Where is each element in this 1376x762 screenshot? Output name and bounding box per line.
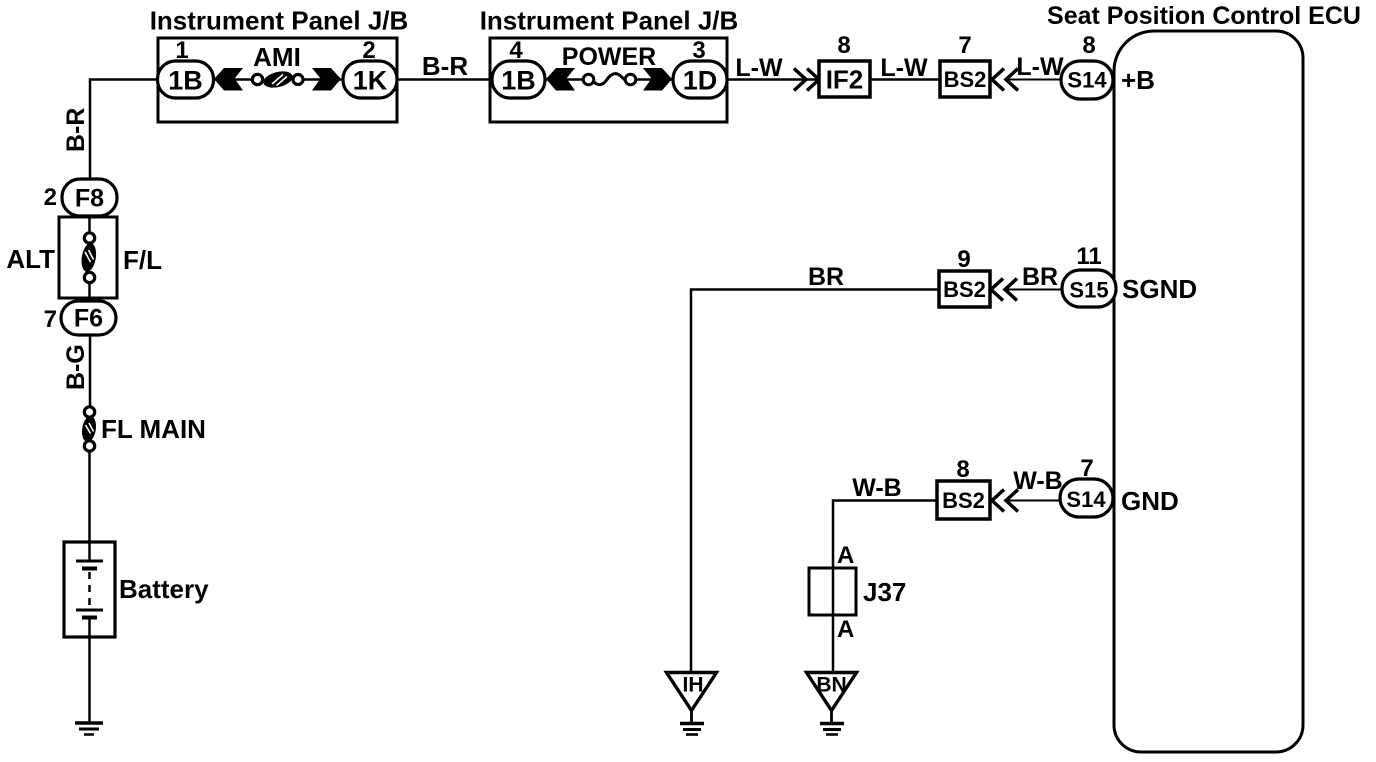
fusible link ALT element <box>80 216 98 301</box>
svg-text:F8: F8 <box>75 185 104 213</box>
junction J37 <box>809 568 856 615</box>
wire BR from IH to BS2 (SGND row) <box>691 290 939 672</box>
svg-text:A: A <box>837 616 854 643</box>
wire B-G from F6 to FL MAIN <box>89 335 92 407</box>
svg-text:2: 2 <box>362 37 375 64</box>
arrow left (J/B2) <box>546 68 575 91</box>
chevrons left out of BS2 top <box>992 69 1018 91</box>
svg-text:1K: 1K <box>353 66 388 96</box>
wire B-R between J/Bs <box>397 78 490 81</box>
svg-text:FL MAIN: FL MAIN <box>101 414 206 444</box>
wire: main feed through J/B 1 <box>213 78 253 81</box>
arrow right (J/B1) <box>312 68 341 91</box>
svg-text:8: 8 <box>837 32 850 59</box>
svg-text:BS2: BS2 <box>944 67 987 92</box>
svg-text:7: 7 <box>958 32 971 59</box>
svg-text:Instrument Panel J/B: Instrument Panel J/B <box>480 6 739 36</box>
fuse POWER element <box>583 74 636 85</box>
wire L-W S14 to BS2 <box>1006 79 1062 81</box>
svg-text:3: 3 <box>692 37 705 64</box>
ground triangle BN <box>807 673 857 735</box>
svg-text:A: A <box>837 542 854 569</box>
svg-text:+B: +B <box>1121 65 1155 95</box>
wire: left drop from 1B to F8 <box>90 80 158 180</box>
svg-text:ALT: ALT <box>6 244 55 274</box>
wire W-B S14 to BS2 <box>1006 500 1060 502</box>
svg-text:Seat Position Control ECU: Seat Position Control ECU <box>1047 2 1361 30</box>
svg-text:W-B: W-B <box>1013 467 1062 495</box>
svg-text:L-W: L-W <box>735 54 783 82</box>
Instrument Panel J/B box 1 <box>158 38 397 122</box>
connector 1B (J/B2) pin 4 <box>492 61 545 98</box>
connector S15 pin 11 <box>1062 270 1116 307</box>
svg-text:BR: BR <box>1022 263 1058 291</box>
connector 1K (J/B1) pin 2 <box>343 61 397 98</box>
junction connector BS2 pin 9 <box>939 271 990 307</box>
wire FL MAIN to battery <box>88 451 91 561</box>
connector 1B (J/B1) pin 1 <box>158 61 214 98</box>
chevrons right into IF2 <box>794 69 819 91</box>
fusible link FL MAIN element <box>80 407 97 451</box>
svg-text:7: 7 <box>44 306 57 333</box>
svg-text:S14: S14 <box>1067 68 1107 93</box>
svg-text:1: 1 <box>175 37 188 64</box>
wire L-W IF2 to BS2 <box>870 78 940 81</box>
connector 1D (J/B2) pin 3 <box>673 61 727 98</box>
svg-text:7: 7 <box>1080 455 1093 482</box>
wire battery to ground <box>88 617 91 723</box>
svg-text:S15: S15 <box>1069 278 1108 303</box>
battery B1 box <box>64 542 115 637</box>
svg-text:POWER: POWER <box>562 43 656 71</box>
Instrument Panel J/B box 2 <box>490 38 727 122</box>
svg-text:BR: BR <box>808 263 844 291</box>
svg-text:BS2: BS2 <box>943 277 986 302</box>
svg-text:IH: IH <box>683 674 704 697</box>
svg-text:B-G: B-G <box>62 344 90 390</box>
svg-text:8: 8 <box>1082 32 1095 59</box>
svg-text:B-R: B-R <box>422 51 468 81</box>
connector F6 <box>61 301 116 335</box>
ground (battery) <box>75 723 103 735</box>
svg-text:1B: 1B <box>168 66 203 96</box>
connector S14 pin 7 <box>1060 479 1113 517</box>
svg-text:S14: S14 <box>1066 487 1106 512</box>
svg-text:BN: BN <box>816 674 846 697</box>
svg-text:F6: F6 <box>74 305 103 333</box>
svg-text:GND: GND <box>1121 486 1179 516</box>
svg-text:B-R: B-R <box>62 108 90 152</box>
junction connector IF2 pin 8 <box>819 61 870 97</box>
svg-text:J37: J37 <box>863 577 906 607</box>
svg-text:2: 2 <box>44 184 57 211</box>
svg-text:8: 8 <box>956 456 969 483</box>
chevrons left out of BS2 bottom <box>992 490 1018 512</box>
svg-text:Instrument Panel J/B: Instrument Panel J/B <box>150 6 409 36</box>
wire BR S15 to BS2 <box>1005 289 1062 291</box>
ground triangle IH <box>667 673 717 735</box>
svg-text:SGND: SGND <box>1122 274 1197 304</box>
arrow right (J/B2) <box>643 68 672 91</box>
svg-text:W-B: W-B <box>852 474 901 502</box>
svg-text:9: 9 <box>957 246 970 273</box>
svg-text:AMI: AMI <box>253 42 301 72</box>
arrow left (J/B1) <box>214 68 243 91</box>
fuse AMI element <box>252 69 303 91</box>
wire W-B from J37 to BS2 (GND row) <box>833 501 937 672</box>
svg-text:IF2: IF2 <box>826 65 864 95</box>
connector F8 <box>62 179 117 216</box>
chevrons left out of BS2 mid <box>991 279 1017 301</box>
fusible link ALT F/L box <box>59 217 117 298</box>
svg-text:F/L: F/L <box>123 245 162 275</box>
svg-text:Battery: Battery <box>119 574 209 604</box>
wire L-W from 1D to IF2 <box>727 78 819 81</box>
Seat Position Control ECU box U1 <box>1047 2 1361 752</box>
battery B1 plates <box>76 561 103 618</box>
svg-text:BS2: BS2 <box>942 488 985 513</box>
junction connector BS2 pin 7 <box>940 61 990 97</box>
svg-text:4: 4 <box>509 37 523 64</box>
svg-text:L-W: L-W <box>1016 53 1064 81</box>
svg-text:L-W: L-W <box>880 54 928 82</box>
svg-text:1B: 1B <box>501 66 536 96</box>
junction connector BS2 pin 8 <box>937 481 990 519</box>
svg-text:1D: 1D <box>683 66 718 96</box>
connector S14 pin 8 <box>1061 61 1113 99</box>
svg-text:11: 11 <box>1076 243 1101 270</box>
wire: main feed through J/B 2 <box>545 78 584 81</box>
